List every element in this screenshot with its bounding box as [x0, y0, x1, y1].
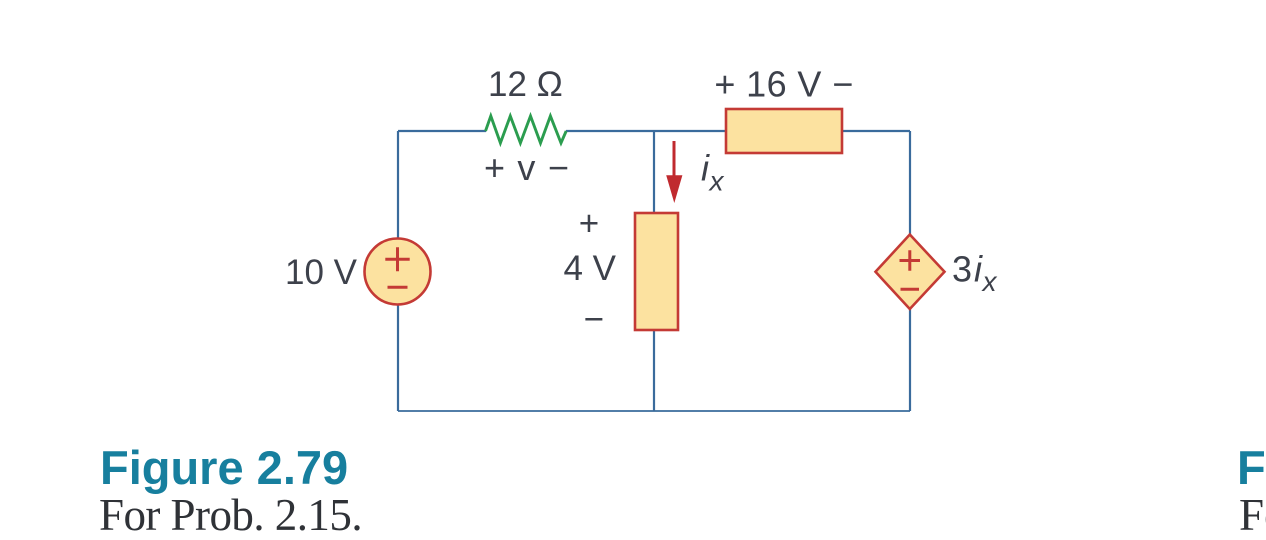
svg-text:Figure 2.79: Figure 2.79: [100, 441, 348, 494]
minus sign inside source: [388, 286, 408, 289]
wire middle branch upper (x=654): [653, 131, 655, 214]
resistor 12 ohm zigzag: [486, 116, 567, 143]
plus sign inside source: [385, 247, 409, 271]
svg-text:4 V: 4 V: [563, 249, 616, 288]
svg-text:3: 3: [952, 249, 972, 290]
wire left lower: [397, 303, 399, 411]
plus sign inside diamond: [900, 250, 921, 270]
element 4V rectangle: [635, 213, 678, 330]
svg-text:x: x: [981, 266, 998, 297]
current arrow ix (red): [673, 141, 676, 180]
wire right branch upper (x=910): [909, 131, 911, 236]
wire bottom (y=411): [398, 410, 910, 412]
svg-text:−: −: [584, 300, 604, 339]
element 16V rectangle: [726, 109, 842, 153]
svg-text:x: x: [708, 166, 725, 197]
wire middle branch lower: [653, 329, 655, 411]
wire left branch (x=398): [397, 131, 399, 240]
wire top left (source to resistor, y=131): [398, 130, 486, 132]
svg-text:Fig: Fig: [1237, 441, 1266, 494]
minus sign inside diamond: [901, 288, 920, 291]
svg-text:+ v −: + v −: [484, 147, 570, 188]
svg-text:12 Ω: 12 Ω: [488, 65, 563, 104]
wire right branch lower: [909, 307, 911, 411]
svg-text:10 V: 10 V: [285, 253, 358, 292]
svg-text:For: For: [1239, 490, 1266, 540]
wire top right (resistor to right branch, y=131): [566, 130, 910, 132]
svg-text:For Prob. 2.15.: For Prob. 2.15.: [99, 490, 362, 540]
svg-text:+: +: [579, 204, 599, 243]
svg-text:+ 16 V −: + 16 V −: [714, 64, 853, 105]
dependent source diamond 3ix: [876, 235, 945, 310]
voltage source V1 10V circle: [365, 239, 431, 305]
